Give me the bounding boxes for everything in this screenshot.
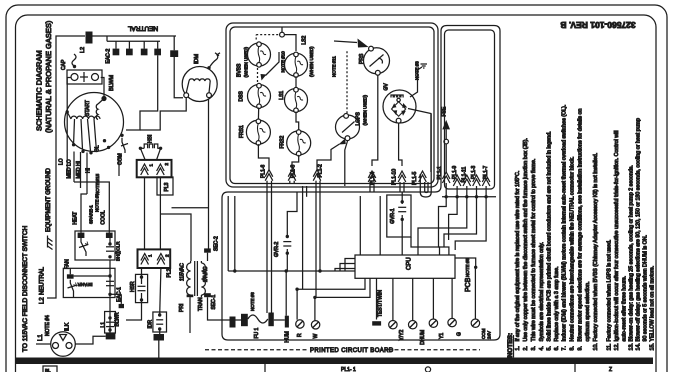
- terminal HEAT: [78, 233, 85, 238]
- note11 arrow: [334, 39, 369, 48]
- svg-text:Blower-on delay: gas heating: Blower-on delay: gas heating 25 seconds,…: [629, 165, 635, 341]
- svg-text:NOTE #4: NOTE #4: [45, 315, 51, 336]
- neutral terminal 4: [154, 41, 161, 55]
- pin PL1-4: [368, 171, 376, 192]
- wire PL1-3 down: [444, 197, 477, 247]
- label PCB: [465, 258, 472, 292]
- terminal PL4: [154, 334, 165, 358]
- label NOTE #11: [332, 56, 337, 77]
- switch HEAT: [79, 238, 88, 256]
- label 24VAC: [203, 266, 209, 282]
- svg-text:PL3: PL3: [164, 182, 170, 191]
- svg-text:Y1: Y1: [439, 333, 445, 339]
- CPU right wire: [455, 258, 477, 269]
- svg-text:EAC-2: EAC-2: [106, 49, 112, 64]
- note3 ground wire: [410, 64, 427, 97]
- wire DSS to FRS1: [257, 108, 259, 121]
- svg-text:COOL: COOL: [101, 210, 107, 224]
- svg-text:BVSS: BVSS: [237, 63, 243, 77]
- svg-text:This wire must be connected to: This wire must be connected to furnace s…: [531, 159, 537, 342]
- motor IDM: [182, 54, 217, 102]
- label BVSS: [237, 47, 249, 78]
- svg-text:L1: L1: [101, 322, 107, 328]
- wire HSI to PL3: [140, 148, 160, 160]
- svg-text:R: R: [297, 333, 303, 337]
- svg-text:7.: 7.: [562, 346, 568, 350]
- terminal EAC-1: [117, 287, 124, 308]
- svg-text:GVR-1: GVR-1: [390, 208, 396, 224]
- svg-text:(WHEN USED): (WHEN USED): [363, 95, 368, 126]
- svg-text:Replace only with a 3 amp fuse: Replace only with a 3 amp fuse.: [554, 266, 560, 341]
- wire PL3-2 to PL2-2: [159, 177, 161, 249]
- wire IDR down: [159, 329, 161, 334]
- PL1-5 loop wire: [420, 114, 431, 198]
- wire jumper TEST: [377, 278, 384, 319]
- label 115VAC: [180, 263, 186, 281]
- svg-text:W: W: [313, 334, 319, 339]
- relay IDR: [148, 268, 167, 332]
- svg-text:HSR: HSR: [130, 281, 136, 292]
- dashed BVSS jumper: [256, 35, 279, 40]
- switch PRS: [359, 46, 390, 75]
- svg-text:NOTE #9: NOTE #9: [95, 193, 100, 212]
- svg-text:PCB: PCB: [465, 277, 472, 292]
- label box PL3: [157, 177, 173, 195]
- label EQUIPMENT GROUND: [46, 167, 52, 232]
- switch LS2: [285, 52, 308, 77]
- svg-text:4.: 4.: [539, 346, 545, 350]
- wire R to CPU: [297, 278, 365, 289]
- svg-text:Use only copper wire between t: Use only copper wire between the disconn…: [523, 138, 529, 341]
- terminal HUM: [285, 271, 291, 343]
- L1 riser contact: [106, 281, 114, 285]
- svg-text:8.: 8.: [570, 346, 576, 350]
- wire top bus: [281, 27, 283, 32]
- wire IDM left: [140, 98, 186, 130]
- wire FAN down: [73, 294, 75, 298]
- dashed note11 to LGPS: [346, 51, 348, 113]
- part number 327560-101 REV. B: [560, 20, 635, 30]
- label L2 NEUTRAL: [40, 266, 46, 304]
- bottom black bar: [15, 358, 653, 365]
- wire FRS2 to PL1-8: [292, 155, 299, 170]
- svg-text:2.: 2.: [523, 346, 529, 350]
- pin PL1-10: [392, 169, 406, 192]
- wire TRAN PRI feed: [160, 214, 191, 261]
- terminal block SEC: [230, 317, 236, 328]
- svg-text:optimum speed selection.: optimum speed selection.: [585, 281, 591, 341]
- fuse link FSE: [442, 106, 451, 172]
- terminal COM 24V: [471, 267, 491, 339]
- relay box BFANR: [63, 268, 115, 297]
- switch enclosure inner: [230, 27, 434, 184]
- label PRINTED CIRCUIT BOARD: [205, 348, 480, 354]
- overload OL switch: [121, 138, 128, 153]
- pin PL1-8: [288, 164, 306, 289]
- label NOTE #3: [415, 61, 420, 80]
- transformer TRAN primary: [187, 261, 191, 297]
- svg-text:EAC-1: EAC-1: [117, 287, 123, 302]
- svg-text:L2: L2: [80, 47, 86, 53]
- svg-text:327560-101 REV. B: 327560-101 REV. B: [560, 20, 635, 30]
- transformer TRAN secondary: [201, 261, 205, 297]
- legend fragment mid: [265, 364, 356, 372]
- wire tap HI: [86, 153, 92, 195]
- wire FRS1 to PL1-6: [258, 144, 269, 170]
- wire L2 riser: [47, 36, 85, 298]
- terminal PRI: [187, 295, 194, 334]
- node junction: [280, 32, 285, 37]
- svg-text:24V: 24V: [487, 331, 492, 339]
- svg-text:ILK: ILK: [65, 322, 71, 331]
- dashed BVSS to DSS: [257, 68, 259, 83]
- legend fragment left: [43, 366, 57, 372]
- title SCHEMATIC DIAGRAM: [35, 50, 44, 131]
- label SPARE-1: [89, 205, 94, 224]
- wire tap MED HI: [76, 152, 82, 188]
- svg-text:FRS2: FRS2: [280, 136, 286, 149]
- label HEAT: [73, 212, 79, 225]
- svg-text:START: START: [85, 100, 91, 116]
- svg-text:HSI: HSI: [148, 135, 154, 143]
- svg-text:CAP: CAP: [61, 59, 67, 70]
- label SEC-2: [214, 236, 220, 251]
- label NOTE #9 spare: [95, 193, 100, 212]
- wire LGPS to plug: [345, 141, 348, 186]
- pin PL1-3: [471, 165, 480, 196]
- switch DSS: [239, 83, 271, 108]
- svg-text:BLWR: BLWR: [115, 312, 121, 326]
- pin PL1-6: [261, 164, 273, 313]
- svg-text:HEAT: HEAT: [73, 212, 79, 225]
- contact BH-CLR: [106, 238, 121, 261]
- wire L1 riser: [108, 260, 111, 334]
- svg-text:IDM: IDM: [194, 54, 200, 65]
- transformer core: [195, 261, 198, 296]
- wire PL1-1 down: [439, 197, 449, 255]
- terminal G: [448, 278, 463, 336]
- wire cap to start: [101, 78, 104, 99]
- svg-text:NOTE #15: NOTE #15: [95, 173, 100, 195]
- igniter HSI: [139, 135, 163, 150]
- label COOL: [101, 210, 107, 224]
- svg-text:Symbols are electrical represe: Symbols are electrical representation on…: [539, 242, 545, 341]
- label NOTE #15: [95, 173, 100, 195]
- neutral bus wire: [93, 36, 177, 41]
- pin PL1-7: [482, 165, 490, 196]
- svg-text:9.: 9.: [578, 346, 584, 350]
- terminal SEC-2: [204, 248, 211, 261]
- wire neutral to inducer: [174, 57, 183, 98]
- legend fragment circle: [425, 364, 575, 372]
- wire COM tap: [118, 153, 120, 176]
- wire SEC-2 up: [0, 0, 1, 1]
- label COM: [118, 153, 124, 165]
- svg-text:24VAC: 24VAC: [203, 266, 209, 282]
- motor BLWM: [65, 74, 124, 152]
- neutral terminal 5: [170, 36, 178, 57]
- legend fragment z: [609, 367, 612, 372]
- svg-text:FU 1: FU 1: [254, 327, 260, 338]
- svg-text:L2: L2: [40, 297, 46, 304]
- svg-text:TEST/TWIN: TEST/TWIN: [378, 290, 384, 317]
- jumper TEST/TWIN: [372, 321, 381, 325]
- terminal COOL: [106, 233, 113, 238]
- svg-text:EQUIPMENT GROUND: EQUIPMENT GROUND: [46, 167, 52, 232]
- wire PL1-7 down: [455, 197, 486, 250]
- label L1 field: [38, 334, 44, 341]
- svg-text:auto-reset after three hours.: auto-reset after three hours.: [622, 276, 628, 342]
- wire PRS to PL1-4: [372, 75, 378, 166]
- svg-text:GVR-2: GVR-2: [274, 242, 280, 258]
- svg-text:(WHEN USED): (WHEN USED): [309, 46, 314, 77]
- wire HI to HEAT: [81, 194, 87, 233]
- svg-text:BFANR: BFANR: [77, 282, 93, 287]
- wire CAP left to LO tap: [67, 78, 70, 177]
- svg-text:G: G: [457, 332, 463, 336]
- switch BVSS: [248, 42, 271, 67]
- svg-text:PL1-7: PL1-7: [483, 165, 489, 179]
- label EAC-2: [106, 49, 112, 64]
- svg-text:10.: 10.: [593, 343, 599, 350]
- svg-text:PRINTED CIRCUIT BOARD: PRINTED CIRCUIT BOARD: [310, 348, 394, 354]
- svg-text:NOTE #6: NOTE #6: [250, 292, 255, 311]
- note10 arrow: [261, 52, 280, 81]
- IDM overload lead: [209, 53, 220, 68]
- switch LS1: [279, 87, 308, 112]
- pin PL1-11: [462, 167, 471, 197]
- BLWM main winding: [67, 112, 100, 152]
- PCB narrow inner border: [445, 30, 495, 189]
- wire node to LS2: [284, 35, 296, 51]
- svg-text:12.: 12.: [614, 343, 620, 350]
- title NATURAL PROPANE GASES: [44, 20, 53, 133]
- terminal DHUM: [409, 278, 427, 345]
- svg-text:15.: 15.: [650, 343, 656, 350]
- svg-text:13.: 13.: [629, 343, 635, 350]
- label LS2: [302, 35, 315, 77]
- label NOTES heading: [507, 333, 514, 358]
- svg-text:PL1-5: PL1-5: [412, 171, 418, 185]
- wire LS2 to LS1: [295, 76, 297, 89]
- LGPS bypass arrow: [317, 139, 346, 170]
- terminal FAN: [67, 268, 74, 278]
- svg-text:BH(I)CLR: BH(I)CLR: [116, 241, 121, 261]
- svg-text:Inducer (IDM) and blower (BLWM: Inducer (IDM) and blower (BLWM) motors c…: [562, 105, 568, 342]
- wire PL1-11 down: [411, 197, 467, 255]
- svg-text:NEUTRAL: NEUTRAL: [127, 25, 158, 32]
- svg-text:MED LO: MED LO: [67, 159, 73, 178]
- svg-text:Factory connected when LGPS is: Factory connected when LGPS is not used.: [607, 240, 613, 342]
- relay GVR-1: [387, 192, 411, 255]
- wire ILK to L1 terminal: [75, 336, 105, 344]
- label PRI: [179, 304, 185, 312]
- valve GV: [383, 83, 416, 123]
- printed circuit board outline: [222, 26, 500, 341]
- svg-text:3.: 3.: [531, 346, 537, 350]
- svg-text:YELLOW lead not on all motors.: YELLOW lead not on all motors.: [650, 266, 656, 342]
- label NEUTRAL: [127, 25, 158, 32]
- svg-text:6.: 6.: [554, 346, 560, 350]
- svg-text:PL1-10: PL1-10: [392, 169, 398, 185]
- svg-text:SEC-2: SEC-2: [214, 236, 220, 251]
- svg-text:SPARE-1: SPARE-1: [89, 205, 94, 224]
- svg-text:LO: LO: [59, 158, 65, 165]
- svg-text:LS1: LS1: [279, 91, 285, 100]
- svg-text:Y/Y2: Y/Y2: [399, 329, 405, 340]
- svg-text:SCHEMATIC DIAGRAM: SCHEMATIC DIAGRAM: [35, 50, 44, 131]
- wire LS1 to FRS2: [296, 112, 299, 132]
- label NOTE #10: [281, 51, 286, 73]
- svg-text:14.: 14.: [636, 343, 642, 350]
- equipment ground symbol: [48, 236, 53, 250]
- svg-text:NEUTRAL: NEUTRAL: [40, 266, 46, 295]
- wire MEDLO to COOL: [74, 182, 109, 233]
- fuse FU1: [236, 313, 274, 339]
- PCB pin bus: [442, 195, 496, 198]
- svg-text:BL: BL: [45, 368, 51, 372]
- svg-text:PL1- 1: PL1- 1: [341, 367, 356, 372]
- svg-text:Neutral connections are interc: Neutral connections are interchangeable …: [570, 156, 576, 341]
- wire HSR down: [126, 303, 142, 320]
- svg-text:90 seconds or 5 seconds when D: 90 seconds or 5 seconds when DHUM is ON.: [643, 235, 649, 342]
- wire IDM down: [208, 99, 210, 251]
- wire L1 to ILK: [36, 343, 51, 345]
- svg-text:L1: L1: [38, 334, 44, 341]
- svg-text:HI: HI: [86, 168, 92, 173]
- switch FRS1: [239, 119, 270, 145]
- svg-text:SEC-1: SEC-1: [211, 295, 217, 310]
- wire EAC-1 branch: [110, 294, 121, 304]
- svg-text:MED HI: MED HI: [76, 161, 82, 179]
- svg-text:PL1-9: PL1-9: [452, 165, 458, 179]
- svg-text:NOTE #5: NOTE #5: [465, 258, 470, 277]
- svg-text:TRAN: TRAN: [198, 297, 204, 311]
- switch box: [75, 231, 115, 260]
- wire FU1 to HUM: [274, 319, 285, 321]
- svg-text:LGPS: LGPS: [356, 111, 362, 125]
- svg-text:IDR: IDR: [148, 320, 154, 329]
- svg-text:COM: COM: [481, 328, 486, 339]
- svg-text:PRI: PRI: [179, 304, 185, 312]
- terminal R: [295, 288, 304, 338]
- svg-text:5.: 5.: [547, 346, 553, 350]
- svg-text:Solid lines inside PCB are pri: Solid lines inside PCB are printed circu…: [547, 131, 553, 341]
- label CAP: [61, 59, 67, 70]
- terminal Y1: [429, 278, 445, 339]
- wire tap LO: [59, 158, 65, 165]
- switch enclosure outer: [226, 23, 438, 187]
- label TO 115VAC FIELD DISCONNECT SWITCH: [22, 225, 29, 352]
- wire PL1-9 down: [449, 197, 458, 240]
- capacitor lead squiggle: [72, 54, 76, 68]
- BLWM terminals: [66, 96, 124, 155]
- wire neutral to blower: [126, 55, 158, 130]
- wire W to CPU: [315, 278, 370, 297]
- terminal L1: [101, 322, 116, 340]
- plug PL2: [138, 249, 173, 277]
- svg-text:OL: OL: [95, 145, 101, 152]
- svg-text:CPU: CPU: [407, 257, 413, 270]
- CPU left stubs: [335, 259, 355, 272]
- svg-text:LS2: LS2: [302, 35, 308, 44]
- label TRAN: [198, 297, 204, 311]
- svg-text:PL2: PL2: [167, 268, 173, 277]
- plug PL3: [137, 160, 172, 177]
- svg-text:GV: GV: [384, 83, 390, 91]
- BLWM start winding: [96, 99, 104, 120]
- svg-text:FRS1: FRS1: [239, 125, 245, 138]
- switch LGPS: [336, 95, 368, 141]
- label SEC-1: [211, 295, 217, 310]
- wire tap MED LO: [67, 152, 75, 183]
- wire GV to PL1-10: [399, 123, 402, 166]
- svg-text:Blower-off delay: gas heating: Blower-off delay: gas heating selections…: [636, 118, 642, 341]
- relay HSR: [130, 268, 148, 303]
- 24 volt bus wire: [228, 196, 355, 273]
- svg-text:If any of the original equipme: If any of the original equipment wire is…: [515, 171, 521, 342]
- wire GV to PL1-5: [408, 109, 431, 173]
- svg-text:DHUM: DHUM: [420, 330, 426, 345]
- svg-text:FSE: FSE: [442, 106, 448, 116]
- svg-text:115VAC: 115VAC: [180, 263, 186, 281]
- svg-text:1.: 1.: [515, 346, 521, 350]
- pin PL1-5: [412, 171, 426, 185]
- label FAN: [65, 259, 71, 269]
- svg-text:Blower motor speed selections: Blower motor speed selections are for av…: [578, 109, 584, 342]
- pin PL1-2: [313, 164, 323, 297]
- svg-text:FAN: FAN: [65, 259, 71, 269]
- terminal L2: [80, 32, 93, 54]
- terminal SEC-1: [204, 293, 229, 320]
- svg-text:DSS: DSS: [239, 91, 245, 102]
- wire PL3-1 to PL2-1: [144, 177, 146, 249]
- wire IDM to SEC-2 branch: [172, 207, 209, 209]
- switch BFANR: [68, 280, 93, 294]
- svg-text:Z: Z: [609, 367, 612, 372]
- notes list: [515, 105, 656, 351]
- svg-text:PL1-1: PL1-1: [437, 166, 443, 180]
- svg-text:(NATURAL & PROPANE GASES): (NATURAL & PROPANE GASES): [44, 20, 53, 133]
- svg-text:NOTE #11: NOTE #11: [332, 56, 337, 77]
- svg-text:HUM: HUM: [285, 331, 291, 342]
- neutral terminal 1: [113, 41, 120, 55]
- svg-text:11.: 11.: [607, 344, 613, 351]
- switch FRS2: [280, 130, 311, 156]
- svg-text:PRS: PRS: [359, 53, 365, 64]
- PCB trace verticals: [360, 196, 380, 255]
- capacitor CAP: [67, 70, 102, 84]
- svg-text:Factory connected when BVSS (C: Factory connected when BVSS (Chimney Ada…: [593, 153, 599, 342]
- label NOTE #6: [250, 292, 255, 311]
- pin PL1-1: [437, 166, 450, 197]
- neutral terminal 2: [126, 41, 133, 55]
- relay GVR-2: [274, 192, 297, 271]
- wire FAN to L1 riser: [74, 275, 110, 277]
- pin PL1-9: [452, 165, 461, 196]
- terminal W: [311, 296, 319, 339]
- svg-text:TO 115VAC FIELD DISCONNECT SWI: TO 115VAC FIELD DISCONNECT SWITCH: [22, 225, 29, 352]
- svg-text:BLWM: BLWM: [109, 74, 115, 91]
- neutral terminal 3: [141, 41, 148, 55]
- label NOTE #4: [45, 315, 51, 336]
- connector ILK: [51, 322, 76, 356]
- microprocessor CPU: [355, 255, 455, 278]
- terminal Y/Y2: [389, 278, 405, 340]
- relay contact BLWR: [105, 312, 121, 334]
- svg-text:Ignition-lockout will occur af: Ignition-lockout will occur after four c…: [614, 130, 620, 341]
